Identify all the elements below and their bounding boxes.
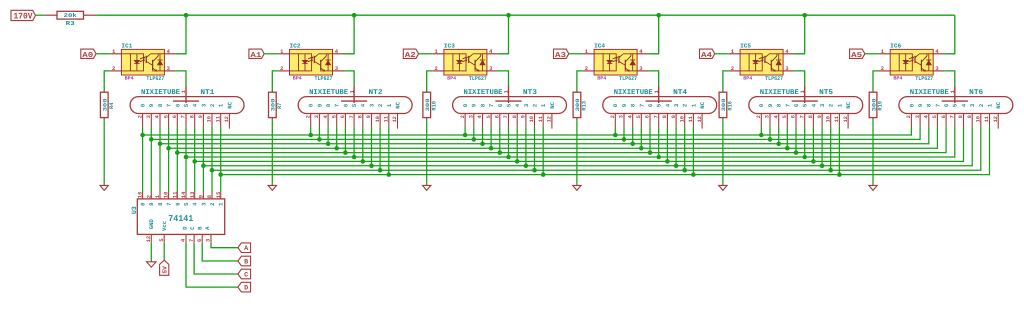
svg-text:A0: A0: [82, 52, 94, 60]
svg-text:NT6: NT6: [969, 89, 983, 97]
U3 top pin numbers: [137, 191, 222, 198]
svg-text:6: 6: [197, 239, 203, 242]
svg-text:A3: A3: [555, 52, 567, 60]
tag B: [238, 256, 251, 266]
U3 input labels DCBA: [181, 226, 211, 230]
wire 170V to R3: [36, 14, 45, 16]
channel 5: opto IC5 / tube NT5: [700, 15, 863, 190]
svg-text:20k: 20k: [64, 12, 78, 19]
svg-text:13: 13: [189, 191, 196, 198]
svg-text:A1: A1: [250, 52, 262, 60]
svg-text:A4: A4: [701, 52, 713, 60]
svg-text:R13: R13: [582, 101, 588, 111]
svg-text:B: B: [244, 259, 248, 267]
bus junctions ch1: [140, 133, 223, 177]
U3 output labels 0-1: [140, 202, 225, 206]
U3 power labels: [148, 219, 168, 231]
svg-text:10: 10: [163, 192, 170, 199]
channel 3: opto IC3 / tube NT3: [403, 15, 566, 190]
svg-text:74141: 74141: [168, 214, 194, 224]
tube1 cathode drops to 74141: [143, 127, 221, 192]
wire GND pin: [150, 243, 152, 262]
svg-text:NT1: NT1: [200, 89, 215, 97]
svg-text:Vcc: Vcc: [161, 220, 168, 231]
svg-text:IC3: IC3: [444, 43, 455, 50]
wire Vcc pin: [163, 243, 165, 260]
svg-text:A2: A2: [405, 52, 416, 60]
svg-text:NT3: NT3: [523, 89, 537, 97]
tube6 cathode drops: [911, 127, 989, 176]
junction rail ch3: [506, 13, 511, 18]
svg-text:9: 9: [198, 195, 205, 198]
tube5 cathode drops: [761, 127, 839, 175]
wire 170V rail: [96, 14, 954, 16]
IC U3 74141 top pin stubs: [143, 192, 221, 199]
resistor R3 20k: [45, 11, 97, 27]
svg-text:D: D: [244, 285, 248, 293]
tag C: [238, 269, 251, 279]
svg-text:3: 3: [206, 239, 212, 242]
tag D: [238, 282, 251, 292]
svg-text:11: 11: [171, 191, 178, 198]
bus junctions ch2: [308, 133, 391, 177]
bus junctions ch3: [463, 133, 546, 177]
tube4 cathode drops: [615, 127, 693, 175]
tag A: [238, 243, 251, 253]
svg-text:7: 7: [189, 239, 195, 242]
svg-text:R3: R3: [66, 20, 75, 27]
svg-text:170V: 170V: [14, 11, 34, 21]
ground symbol U3: [147, 262, 157, 267]
bus junctions ch4: [613, 133, 696, 177]
channel 4: opto IC4 / tube NT4: [554, 15, 717, 190]
svg-text:NT4: NT4: [673, 89, 688, 97]
cathode bus horizontal wires: [143, 135, 990, 175]
supply tag 5V: [160, 260, 169, 275]
svg-text:U3: U3: [131, 206, 138, 214]
svg-text:C: C: [244, 272, 248, 280]
svg-text:5V: 5V: [161, 266, 168, 274]
svg-text:IC6: IC6: [890, 43, 901, 50]
svg-text:R7: R7: [277, 103, 283, 109]
junction rail ch1: [184, 13, 189, 18]
bus junctions ch5: [759, 133, 842, 177]
svg-text:5: 5: [159, 238, 165, 241]
svg-text:IC5: IC5: [740, 43, 751, 50]
svg-text:12: 12: [146, 236, 152, 242]
svg-text:A5: A5: [851, 52, 863, 60]
wire output C: [194, 243, 238, 274]
svg-text:IC1: IC1: [121, 43, 132, 50]
junction rail ch5: [802, 13, 807, 18]
svg-text:R10: R10: [431, 101, 437, 111]
svg-text:R16: R16: [728, 101, 734, 111]
tube2 cathode drops: [311, 127, 389, 175]
svg-text:2: 2: [145, 195, 152, 198]
svg-text:R19: R19: [878, 101, 884, 111]
channel 2: opto IC2 / tube NT2: [249, 15, 412, 190]
wire output D: [186, 243, 238, 287]
channel 6: opto IC6 / tube NT6: [850, 15, 1013, 190]
svg-text:14: 14: [180, 191, 187, 198]
svg-text:GND: GND: [148, 219, 155, 230]
svg-text:IC4: IC4: [594, 43, 605, 50]
wire output B: [202, 243, 238, 261]
U3 bottom pin stubs: [151, 234, 211, 242]
junction rail ch4: [656, 13, 661, 18]
svg-text:16: 16: [137, 192, 144, 199]
svg-text:NT2: NT2: [369, 89, 383, 97]
supply tag 170V: [11, 10, 36, 21]
svg-text:7: 7: [166, 203, 173, 206]
tube3 cathode drops: [465, 127, 543, 175]
svg-text:R4: R4: [109, 102, 115, 109]
svg-text:15: 15: [215, 191, 222, 198]
junction rail ch2: [352, 13, 357, 18]
channel 1: opto IC1 / tube NT1: [81, 15, 244, 190]
wire output A: [211, 243, 238, 248]
svg-text:NT5: NT5: [819, 89, 833, 97]
svg-text:IC2: IC2: [290, 43, 301, 50]
U3 bottom pin numbers: [146, 236, 212, 242]
IC U3 74141 body: [137, 199, 224, 235]
